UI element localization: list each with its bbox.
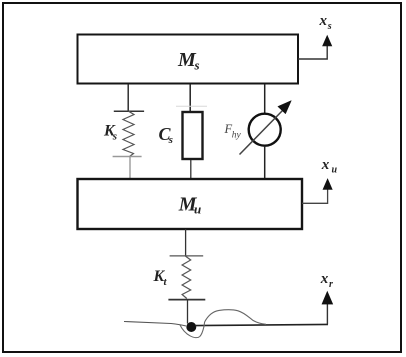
label Mu [178, 194, 201, 217]
spring Ks top tick [114, 110, 144, 112]
svg-text:s: s [327, 21, 332, 32]
label Kt [153, 268, 168, 288]
wire damper Cs to Mu [190, 160, 192, 179]
svg-text:t: t [164, 276, 168, 288]
actuator Fhy circle [249, 114, 281, 146]
wire Mu bottom to spring Kt [185, 229, 187, 256]
svg-text:x: x [321, 157, 330, 173]
spring Ks zigzag [123, 111, 134, 156]
wire road to xr arrow [326, 304, 328, 324]
label Ks [103, 123, 117, 143]
svg-text:x: x [319, 13, 328, 29]
label xu [321, 157, 338, 176]
label xr [320, 271, 333, 290]
wire actuator to Mu [264, 146, 266, 179]
road pothole scribble under dot [180, 322, 205, 338]
label xs [319, 13, 332, 32]
wire spring Ks to Mu [129, 157, 131, 179]
svg-text:u: u [194, 202, 201, 217]
svg-text:s: s [194, 58, 200, 73]
arrow xu [323, 179, 332, 190]
spring Kt top tick [170, 255, 204, 257]
spring Kt zigzag [182, 256, 191, 299]
road surface main line to xr [195, 324, 328, 325]
svg-text:s: s [112, 131, 117, 143]
mass Ms (sprung mass block) [78, 35, 299, 84]
svg-text:r: r [329, 279, 333, 290]
spring Kt bottom tick [168, 299, 205, 301]
damper Cs body [183, 112, 203, 159]
svg-text:hy: hy [232, 131, 242, 141]
svg-text:x: x [320, 271, 329, 287]
arrow xs [323, 36, 332, 46]
label Fhy [224, 122, 242, 140]
label Ms [177, 49, 200, 73]
svg-text:s: s [168, 134, 173, 146]
wire Ms bottom to actuator [264, 84, 266, 114]
mass Mu (unsprung mass block) [78, 179, 303, 229]
road bump curve [205, 310, 266, 325]
wire Ms bottom to spring Ks [127, 84, 129, 111]
wire Ms bottom to damper Cs [176, 84, 207, 111]
road surface left segment [124, 322, 186, 327]
wire Mu right to xu arrow [302, 189, 328, 203]
svg-text:u: u [332, 165, 338, 176]
label Cs [159, 124, 173, 146]
wire Ms right to xs arrow [298, 46, 327, 60]
spring Ks bottom tick [113, 156, 142, 158]
arrow xr [322, 292, 333, 305]
actuator Fhy diagonal arrow [240, 101, 292, 155]
wire spring Kt to road contact [187, 300, 189, 324]
road contact dot [186, 322, 196, 332]
